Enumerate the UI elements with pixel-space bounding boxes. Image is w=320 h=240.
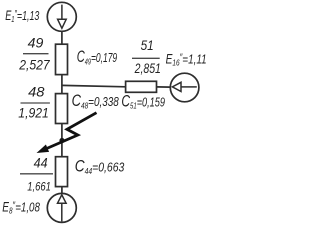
svg-text:51: 51: [141, 37, 154, 53]
svg-text:49: 49: [28, 35, 44, 51]
svg-text:1,661: 1,661: [27, 182, 51, 194]
svg-text:C51=0,159: C51=0,159: [121, 92, 165, 110]
svg-text:1,921: 1,921: [18, 105, 49, 121]
svg-text:E1″=1,13: E1″=1,13: [5, 8, 40, 25]
svg-text:C44=0,663: C44=0,663: [75, 157, 125, 176]
svg-text:2,527: 2,527: [18, 57, 50, 73]
svg-text:2,851: 2,851: [134, 60, 161, 76]
svg-text:48: 48: [28, 84, 45, 100]
svg-text:E16″=1,11: E16″=1,11: [166, 51, 207, 68]
svg-text:C49=0,179: C49=0,179: [77, 48, 117, 67]
svg-text:E8″=1,08: E8″=1,08: [2, 199, 40, 216]
svg-text:44: 44: [34, 154, 48, 170]
